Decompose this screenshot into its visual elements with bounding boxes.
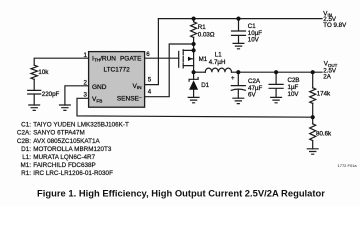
svg-text:IRC LRC-LR1206-01-R030F: IRC LRC-LR1206-01-R030F xyxy=(33,170,113,177)
svg-text:MURATA LQN6C-4R7: MURATA LQN6C-4R7 xyxy=(33,154,95,161)
svg-text:4.7µH: 4.7µH xyxy=(209,59,226,66)
svg-text:220pF: 220pF xyxy=(42,91,60,98)
svg-text:D1:: D1: xyxy=(21,146,31,153)
svg-text:2A: 2A xyxy=(323,74,331,81)
svg-text:10V: 10V xyxy=(248,36,260,43)
svg-text:C2A: C2A xyxy=(248,78,261,85)
svg-text:M1: M1 xyxy=(199,56,208,63)
svg-text:0.03Ω: 0.03Ω xyxy=(198,32,215,39)
svg-text:174k: 174k xyxy=(317,91,331,98)
svg-text:GND: GND xyxy=(92,84,107,91)
svg-text:2: 2 xyxy=(84,79,88,86)
svg-text:FAIRCHILD FDC638P: FAIRCHILD FDC638P xyxy=(33,162,96,169)
svg-text:C2A:: C2A: xyxy=(17,130,31,137)
svg-text:TAIYO YUDEN LMK325BJ106K-T: TAIYO YUDEN LMK325BJ106K-T xyxy=(33,121,129,128)
svg-text:L1:: L1: xyxy=(22,154,31,161)
svg-text:6V: 6V xyxy=(248,92,256,99)
svg-text:1772 F01a: 1772 F01a xyxy=(338,163,358,168)
svg-text:3: 3 xyxy=(84,91,88,98)
svg-text:80.6k: 80.6k xyxy=(316,130,332,137)
svg-text:D1: D1 xyxy=(201,82,209,89)
svg-text:MOTOROLLA MBRM120T3: MOTOROLLA MBRM120T3 xyxy=(33,146,112,153)
svg-text:10k: 10k xyxy=(38,69,49,76)
svg-text:C1:: C1: xyxy=(21,121,31,128)
svg-text:4: 4 xyxy=(148,89,152,96)
svg-text:PGATE: PGATE xyxy=(120,55,142,62)
svg-text:SANYO 6TPA47M: SANYO 6TPA47M xyxy=(33,130,85,137)
svg-text:TO 9.8V: TO 9.8V xyxy=(323,22,347,29)
svg-text:R1:: R1: xyxy=(21,170,31,177)
svg-text:C2B:: C2B: xyxy=(17,138,31,145)
svg-text:L1: L1 xyxy=(215,51,222,58)
svg-text:1: 1 xyxy=(84,52,88,59)
svg-text:AVX 0805ZC105KAT1A: AVX 0805ZC105KAT1A xyxy=(33,138,100,145)
svg-text:R1: R1 xyxy=(198,24,206,31)
svg-text:5: 5 xyxy=(148,77,152,84)
svg-text:6: 6 xyxy=(146,51,150,58)
svg-text:Figure 1. High Efficiency, Hig: Figure 1. High Efficiency, High Output C… xyxy=(37,188,325,199)
svg-text:SENSE–: SENSE– xyxy=(117,94,142,102)
svg-text:+: + xyxy=(231,76,235,82)
svg-text:M1:: M1: xyxy=(20,162,31,169)
svg-text:LTC1772: LTC1772 xyxy=(103,66,130,73)
svg-text:10V: 10V xyxy=(288,91,300,98)
